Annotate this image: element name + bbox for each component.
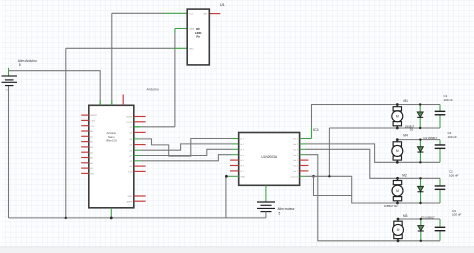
svg-text:100 nF: 100 nF [449,173,459,177]
svg-text:D1/TX: D1/TX [126,122,133,124]
svg-text:5: 5 [279,211,281,215]
svg-text:+3V3: +3V3 [90,121,96,123]
svg-text:100 nF: 100 nF [452,213,462,217]
svg-text:100 nF: 100 nF [444,98,454,102]
svg-text:M3: M3 [403,214,408,218]
svg-text:VIN: VIN [90,174,94,176]
svg-text:D1: D1 [410,127,414,131]
svg-text:Arduino: Arduino [147,88,159,92]
svg-text:100 nF: 100 nF [448,135,458,139]
svg-text:IC1: IC1 [313,127,320,132]
svg-text:+5V: +5V [90,126,94,128]
svg-text:D4 1N5817: D4 1N5817 [424,136,438,140]
svg-text:1N5817 D2: 1N5817 D2 [384,204,398,208]
svg-text:M: M [396,149,399,153]
svg-text:Out 6: Out 6 [293,165,299,168]
svg-text:AREF: AREF [127,200,133,203]
svg-text:U1: U1 [220,2,226,7]
svg-text:D3 1N5817: D3 1N5817 [421,216,435,220]
svg-text:ULN2003A: ULN2003A [261,155,277,159]
svg-text:M: M [396,114,399,118]
svg-text:Out 1: Out 1 [293,138,299,141]
svg-text:Out 7: Out 7 [293,170,299,173]
svg-text:D0/RX: D0/RX [126,117,133,119]
svg-text:M1: M1 [404,99,409,103]
svg-text:M: M [396,189,399,193]
svg-text:VCC: VCC [189,13,194,15]
svg-text:Out 4: Out 4 [293,154,299,157]
svg-text:GND: GND [189,48,194,50]
svg-text:GND: GND [240,176,245,178]
svg-text:RESET: RESET [90,115,98,117]
svg-text:M2: M2 [402,174,407,178]
svg-text:DATA: DATA [189,28,195,31]
svg-text:(Rev3.0): (Rev3.0) [106,138,117,142]
svg-text:M4: M4 [403,134,408,138]
svg-text:Out 3: Out 3 [293,148,299,151]
svg-text:Out 5: Out 5 [293,159,299,162]
svg-text:Out 2: Out 2 [293,143,299,146]
svg-text:common: common [290,176,299,178]
svg-text:M: M [397,228,400,232]
svg-text:Rx: Rx [196,34,200,38]
svg-text:5: 5 [19,63,21,67]
svg-text:ANT: ANT [203,13,208,16]
svg-text:GND: GND [128,196,133,198]
svg-text:Alim Arduino: Alim Arduino [18,59,37,63]
